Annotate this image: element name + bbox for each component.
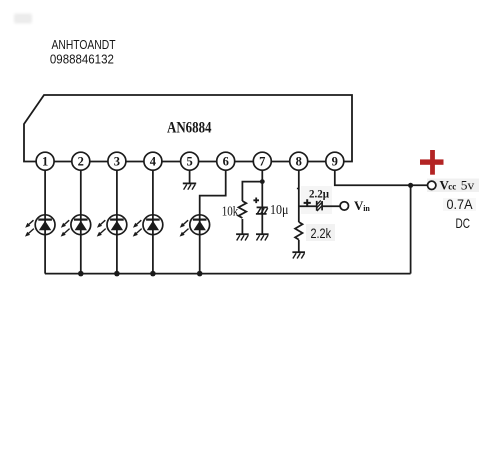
wire pin2 to LED D2 to bus [80,170,82,273]
svg-text:5: 5 [186,155,192,169]
svg-text:3: 3 [114,155,120,169]
wire capacitor C2 to Vin terminal [322,205,340,207]
node junction at Vcc rail [408,183,413,188]
capacitor C2 plates [317,201,322,211]
LED D4 [134,215,163,236]
svg-text:4: 4 [150,155,157,169]
ground below resistor R2 [292,252,305,258]
pin 9 [326,152,344,170]
capacitor C1 hatching [258,208,268,213]
pin 5 [181,152,199,170]
junction dot LED D3 on bus [114,271,120,277]
pin 7 [253,152,271,170]
wire pin8 branch to capacitor C2 [299,205,316,207]
svg-text:2.2μ: 2.2μ [309,189,329,201]
svg-text:0.7A: 0.7A [447,197,473,212]
LED D3 [98,215,127,236]
wire pin5 to ground [189,170,191,183]
pin 4 [144,152,162,170]
pin 1 [36,152,54,170]
wire Vcc junction down to bus [410,185,412,273]
svg-text:8: 8 [296,155,302,169]
ground below capacitor C1 [256,234,269,240]
pin 2 [72,152,90,170]
terminal Vcc open circle [428,181,436,189]
pin 8 [290,152,308,170]
svg-text:2.2k: 2.2k [311,226,332,241]
junction dot LED D2 on bus [78,271,84,277]
wire R2 to ground [298,240,300,252]
wire pin1 to LED D1 to bus [44,170,46,273]
junction dot LED D5 on bus [197,271,203,277]
svg-text:DC: DC [456,215,471,231]
svg-text:ANHTOANDT: ANHTOANDT [52,38,116,52]
plus sign of capacitor C1 [253,198,259,204]
svg-text:2: 2 [78,155,84,169]
scan gray band behind Vcc label [427,179,479,193]
svg-text:7: 7 [259,155,265,169]
wire pin8 down to resistor R2 [298,170,300,222]
svg-text:10k: 10k [222,205,239,220]
scan gray patch behind 2.2k label [306,224,335,241]
capacitor C2 hatching [317,201,322,212]
tick artifact on pin8 wire [297,188,299,190]
ground at pin5 [183,183,196,189]
resistor R2 2.2k zigzag [295,222,302,240]
ground below resistor R1 [236,234,249,240]
svg-text:0988846132: 0988846132 [50,52,114,66]
pin 6 [217,152,235,170]
bottom bus wire [45,273,411,275]
plus sign of capacitor C2 [304,199,311,206]
wire pin7 down [261,170,263,181]
LED D2 [62,215,91,236]
terminal Vin open circle [340,202,348,210]
svg-text:cc: cc [448,182,456,192]
svg-text:1: 1 [42,155,48,169]
wire junction down through capacitor C1 to ground [261,182,263,235]
scan smudge top-left [14,14,32,24]
wire junction to resistor R1 [242,182,262,201]
svg-text:10μ: 10μ [270,203,289,218]
svg-text:6: 6 [223,155,229,169]
wire pin3 to LED D3 to bus [116,170,118,273]
svg-text:5v: 5v [461,178,475,193]
pin 3 [108,152,126,170]
wire pin4 to LED D4 to bus [152,170,154,273]
capacitor C1 plates [256,207,268,214]
junction dot LED D4 on bus [150,271,156,277]
svg-text:in: in [363,204,370,213]
svg-text:AN6884: AN6884 [167,120,212,137]
scan gray patch behind 2.2u cap area [301,186,332,214]
node junction at pin7 branch [260,179,265,184]
LED D1 [26,215,55,236]
svg-text:9: 9 [332,155,338,169]
IC U1 AN6884 body outline [24,95,352,162]
resistor R1 10k zigzag [238,201,246,218]
wire pin9 to Vcc terminal [335,170,428,185]
wire R1 to ground [241,219,243,234]
scan gray patch behind 0.7A label [443,198,476,211]
red plus mark [420,150,444,175]
wire pin6 jog to LED D5 to bus [200,170,226,273]
LED D5 [181,215,210,236]
